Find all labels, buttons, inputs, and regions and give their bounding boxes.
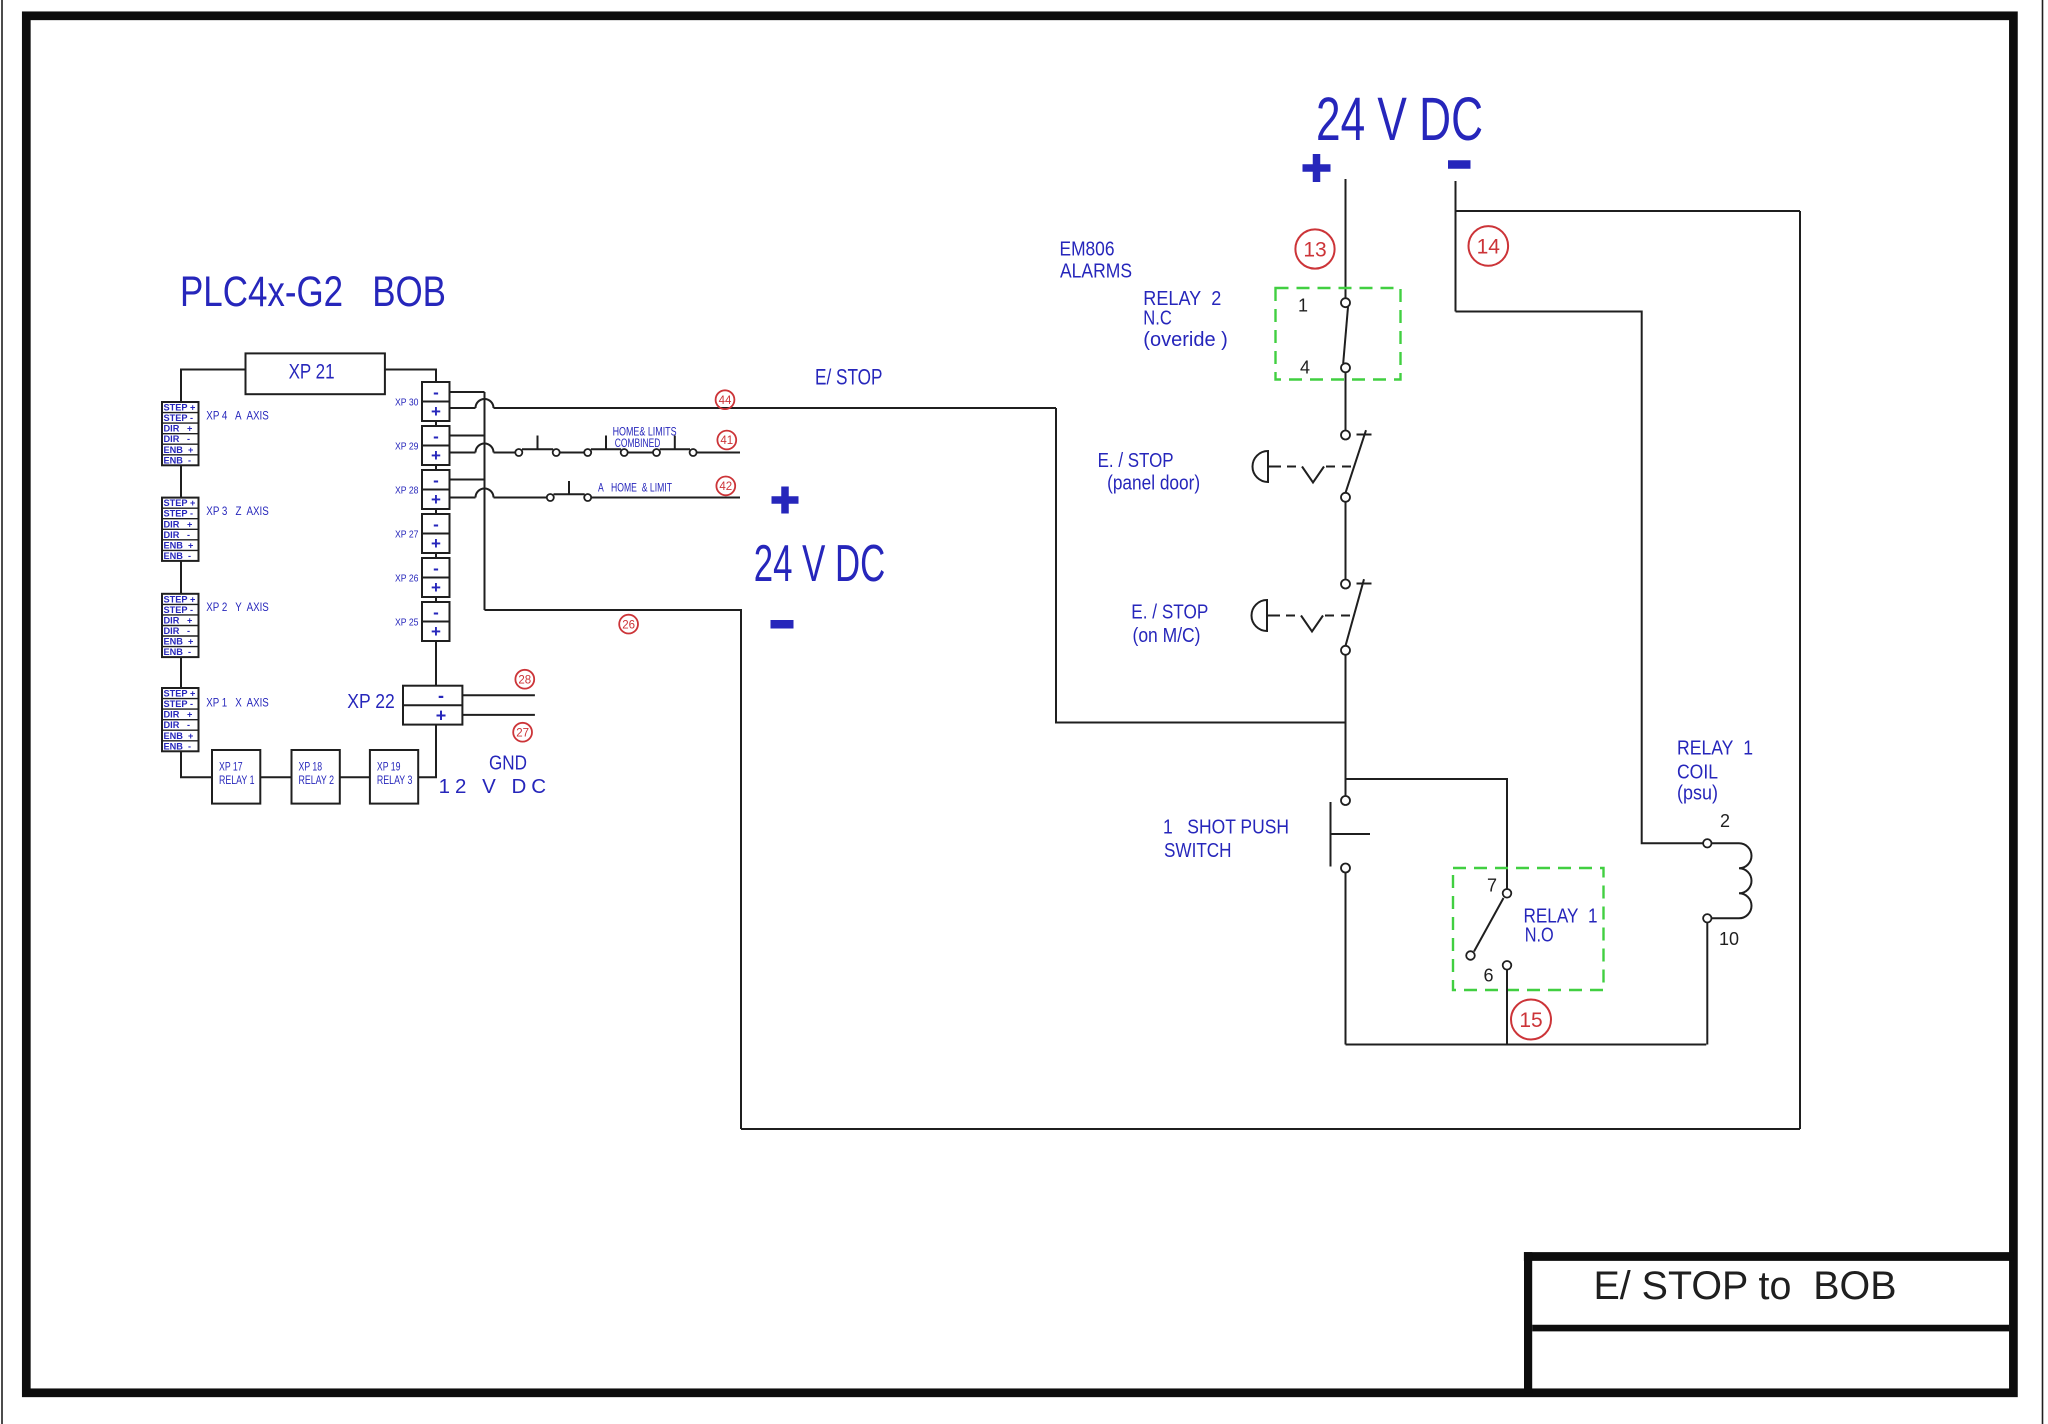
svg-text:ALARMS: ALARMS — [1060, 260, 1132, 283]
label HOME& LIMITS COMBINED — [613, 427, 677, 451]
terminal block XP4 — [162, 402, 199, 465]
title block top line — [1524, 1252, 2014, 1261]
svg-text:24 V DC: 24 V DC — [1316, 85, 1483, 153]
wire XP1 to XP17 — [181, 751, 212, 777]
wire XP18 to XP19 — [340, 776, 370, 778]
svg-text:RELAY 1: RELAY 1 — [1677, 737, 1753, 760]
wire XP22 up to XP25 — [435, 641, 437, 686]
svg-text:+: + — [431, 490, 441, 509]
svg-text:+: + — [436, 706, 447, 726]
wire XP 25 link up — [435, 597, 437, 602]
svg-text:14: 14 — [1477, 235, 1501, 258]
svg-text:1 SHOT PUSH: 1 SHOT PUSH — [1163, 816, 1289, 839]
node 42 — [716, 477, 735, 496]
svg-text:XP 19: XP 19 — [377, 762, 401, 774]
svg-text:DIR +: DIR + — [164, 519, 193, 529]
node 26 — [619, 615, 638, 634]
svg-text:13: 13 — [1303, 239, 1326, 262]
svg-text:EM806: EM806 — [1060, 238, 1115, 261]
svg-text:E/ STOP to BOB: E/ STOP to BOB — [1594, 1264, 1897, 1308]
wire XP 28 link up — [435, 465, 437, 470]
svg-text:10: 10 — [1719, 929, 1739, 949]
svg-text:RELAY 3: RELAY 3 — [377, 775, 413, 787]
switch A home limit on line 42 — [547, 481, 591, 501]
terminal XP 27 — [395, 514, 450, 553]
svg-text:STEP -: STEP - — [164, 699, 194, 709]
connector XP22 — [403, 686, 462, 726]
wire XP19 to XP22 — [418, 725, 436, 777]
connector XP19 RELAY 3 — [370, 750, 418, 804]
wire XP4 to XP3 — [180, 465, 182, 497]
wire XP3 to XP2 — [180, 561, 182, 594]
svg-text:XP 3 Z AXIS: XP 3 Z AXIS — [206, 506, 269, 518]
svg-text:(overide ): (overide ) — [1143, 328, 1228, 351]
svg-text:XP 29: XP 29 — [395, 440, 419, 452]
label E. / STOP (panel door) — [1098, 449, 1201, 495]
svg-text:DIR +: DIR + — [164, 424, 193, 434]
svg-text:STEP +: STEP + — [164, 403, 196, 413]
svg-text:ENB +: ENB + — [164, 731, 194, 741]
svg-text:ENB +: ENB + — [164, 540, 194, 550]
svg-text:(psu): (psu) — [1677, 782, 1718, 805]
title block divider line — [1532, 1325, 2009, 1332]
svg-text:STEP -: STEP - — [164, 509, 194, 519]
svg-text:XP 26: XP 26 — [395, 572, 419, 584]
label minus top — [1448, 160, 1471, 169]
label plus top — [1303, 154, 1331, 182]
wire pin 6 down to bus — [1506, 970, 1508, 1045]
wire push switch down to bus — [1345, 873, 1347, 1045]
svg-text:E. / STOP: E. / STOP — [1131, 601, 1208, 624]
svg-text:(panel door): (panel door) — [1107, 472, 1200, 495]
node 41 — [717, 431, 736, 450]
svg-text:-: - — [433, 471, 439, 490]
switch limit 3 on line 41 — [653, 436, 697, 457]
svg-text:1: 1 — [1298, 295, 1308, 315]
node 15 — [1511, 1000, 1551, 1040]
mushroom head panel door — [1253, 451, 1355, 483]
wire lower bus — [1346, 1044, 1707, 1046]
svg-text:STEP +: STEP + — [164, 498, 196, 508]
relay 2 NC dashed box — [1276, 288, 1401, 380]
svg-text:XP 28: XP 28 — [395, 484, 419, 496]
svg-text:PLC4x-G2 BOB: PLC4x-G2 BOB — [180, 268, 446, 316]
svg-text:-: - — [438, 686, 444, 706]
switch E stop panel door — [1341, 430, 1372, 502]
wire XP17 to XP18 — [260, 776, 291, 778]
svg-text:XP 2 Y AXIS: XP 2 Y AXIS — [206, 602, 269, 614]
page edge thin line right — [2042, 0, 2044, 1424]
wire 42 A home limit line — [450, 489, 741, 498]
label RELAY 1 COIL (psu) — [1677, 737, 1753, 805]
wire XP22 minus stub — [462, 694, 535, 696]
wire 41 home limits line — [450, 444, 741, 453]
svg-text:XP 22: XP 22 — [347, 691, 395, 713]
switch limit 1 on line 41 — [515, 436, 559, 457]
svg-text:XP 21: XP 21 — [289, 360, 335, 384]
wire far right return — [1799, 211, 1801, 1129]
wire panel door to MC switch — [1345, 502, 1347, 580]
label 24 V DC middle minus — [771, 620, 794, 629]
svg-text:24 V DC: 24 V DC — [754, 535, 886, 593]
svg-text:XP 17: XP 17 — [219, 762, 243, 774]
switch E stop on MC — [1341, 579, 1372, 655]
wire XP29 minus to bus — [450, 435, 485, 437]
wire relay2 to panel door switch — [1345, 372, 1347, 430]
switch limit 2 on line 41 — [584, 436, 628, 457]
relay 1 NO dashed box — [1453, 868, 1604, 990]
svg-text:ENB -: ENB - — [164, 455, 192, 465]
svg-text:DIR -: DIR - — [164, 626, 191, 636]
wire minus branch to coil — [1456, 312, 1704, 844]
svg-text:-: - — [433, 427, 439, 446]
svg-text:2: 2 — [1720, 811, 1730, 831]
svg-text:COMBINED: COMBINED — [615, 438, 661, 450]
svg-text:DIR -: DIR - — [164, 434, 191, 444]
svg-text:+: + — [431, 446, 441, 465]
svg-text:44: 44 — [719, 395, 732, 407]
svg-text:DIR +: DIR + — [164, 616, 193, 626]
svg-text:ENB -: ENB - — [164, 551, 192, 561]
svg-text:A HOME & LIMIT: A HOME & LIMIT — [598, 482, 672, 494]
node 44 — [716, 390, 735, 409]
svg-text:42: 42 — [719, 481, 732, 493]
svg-text:41: 41 — [720, 435, 733, 447]
svg-text:RELAY 2: RELAY 2 — [299, 775, 335, 787]
svg-text:-: - — [433, 559, 439, 578]
wire XP21 right to XP30 — [386, 370, 437, 383]
svg-text:26: 26 — [622, 619, 635, 631]
wire minus collector vertical — [484, 392, 486, 610]
label GND 12 V DC — [439, 752, 547, 799]
svg-text:XP 4 A AXIS: XP 4 A AXIS — [206, 411, 269, 423]
svg-text:-: - — [433, 515, 439, 534]
svg-text:STEP -: STEP - — [164, 413, 194, 423]
switch 1 shot push — [1331, 796, 1371, 873]
svg-text:+: + — [431, 534, 441, 553]
svg-text:27: 27 — [516, 727, 529, 739]
svg-text:6: 6 — [1483, 966, 1493, 986]
wire XP2 to XP1 — [180, 657, 182, 688]
mushroom head on MC — [1252, 600, 1354, 632]
node 14 — [1469, 226, 1509, 266]
svg-text:ENB -: ENB - — [164, 647, 192, 657]
svg-text:ENB +: ENB + — [164, 637, 194, 647]
svg-text:15: 15 — [1519, 1009, 1542, 1032]
svg-text:+: + — [431, 578, 441, 597]
label 24 V DC middle plus — [772, 487, 799, 514]
label EM806 ALARMS — [1060, 238, 1133, 283]
wire MC switch down to push switch — [1345, 655, 1347, 796]
svg-text:RELAY 1: RELAY 1 — [219, 775, 255, 787]
connector XP18 RELAY 2 — [292, 750, 340, 804]
svg-text:-: - — [433, 603, 439, 622]
wire XP 29 link up — [435, 421, 437, 426]
svg-text:(on M/C): (on M/C) — [1133, 624, 1201, 647]
svg-text:STEP -: STEP - — [164, 605, 194, 615]
svg-text:HOME& LIMITS: HOME& LIMITS — [613, 427, 677, 439]
switch relay2 NC contact — [1341, 298, 1350, 372]
wire XP 27 link up — [435, 509, 437, 514]
svg-text:E. / STOP: E. / STOP — [1098, 449, 1174, 472]
switch relay1 NO contact — [1466, 889, 1511, 970]
svg-text:N.C: N.C — [1143, 307, 1172, 330]
svg-text:XP 27: XP 27 — [395, 528, 419, 540]
node 13 — [1295, 229, 1334, 268]
svg-text:XP 25: XP 25 — [395, 616, 419, 628]
svg-text:SWITCH: SWITCH — [1164, 839, 1232, 862]
svg-text:XP 18: XP 18 — [299, 762, 323, 774]
svg-text:28: 28 — [518, 674, 531, 686]
svg-text:4: 4 — [1300, 358, 1310, 378]
svg-text:E/ STOP: E/ STOP — [815, 365, 883, 390]
page edge thin line left — [1, 0, 3, 1424]
wire XP30 minus to bus — [450, 391, 485, 393]
svg-text:DIR -: DIR - — [164, 530, 191, 540]
terminal block XP3 — [162, 498, 199, 561]
svg-text:DIR +: DIR + — [164, 710, 193, 720]
terminal block XP2 — [162, 594, 199, 657]
wire branch to relay1 NO pin 7 — [1346, 779, 1508, 889]
svg-text:-: - — [433, 383, 439, 402]
svg-text:+: + — [431, 402, 441, 421]
terminal XP 25 — [395, 602, 450, 641]
svg-text:DIR -: DIR - — [164, 720, 191, 730]
title block left line — [1524, 1252, 1532, 1393]
svg-text:XP 30: XP 30 — [395, 396, 419, 408]
wire XP 26 link up — [435, 553, 437, 558]
terminal XP 29 — [395, 426, 450, 465]
terminal XP 28 — [395, 470, 450, 509]
node 28 — [515, 670, 534, 689]
terminal XP 26 — [395, 558, 450, 597]
svg-text:STEP +: STEP + — [164, 594, 196, 604]
svg-text:STEP +: STEP + — [164, 689, 196, 699]
svg-text:7: 7 — [1487, 876, 1497, 896]
connector XP17 RELAY 1 — [212, 750, 260, 804]
svg-text:GND: GND — [489, 752, 527, 775]
svg-text:N.O: N.O — [1525, 924, 1554, 947]
svg-text:ENB -: ENB - — [164, 741, 192, 751]
label RELAY 1 N.O — [1524, 905, 1598, 947]
label 1 SHOT PUSH SWITCH — [1163, 816, 1289, 863]
relay 1 coil — [1703, 839, 1751, 922]
wire plus rail down — [1345, 179, 1347, 298]
wire 26 run to right and down — [485, 610, 742, 1129]
svg-text:+: + — [431, 622, 441, 641]
wire XP22 plus stub — [462, 714, 535, 716]
wire minus rail down — [1455, 181, 1457, 312]
node 27 — [513, 723, 532, 742]
connector XP21 — [246, 353, 385, 394]
wire XP21 left to XP4 — [181, 370, 245, 403]
svg-text:ENB +: ENB + — [164, 445, 194, 455]
terminal XP 30 — [395, 382, 450, 421]
svg-text:COIL: COIL — [1677, 761, 1718, 784]
wire bottom return bus — [741, 1128, 1800, 1130]
label E. / STOP (on M/C) — [1131, 601, 1208, 648]
wire E/STOP 44 from XP30 plus — [450, 399, 1345, 723]
svg-text:XP 1 X AXIS: XP 1 X AXIS — [206, 698, 269, 710]
wire minus rail top branch right — [1456, 210, 1801, 212]
label RELAY 2 N.C (overide ) — [1143, 287, 1228, 351]
terminal block XP1 — [162, 688, 199, 751]
wire coil pin10 down to bus — [1706, 923, 1708, 1045]
wire XP28 minus to bus — [450, 479, 485, 481]
